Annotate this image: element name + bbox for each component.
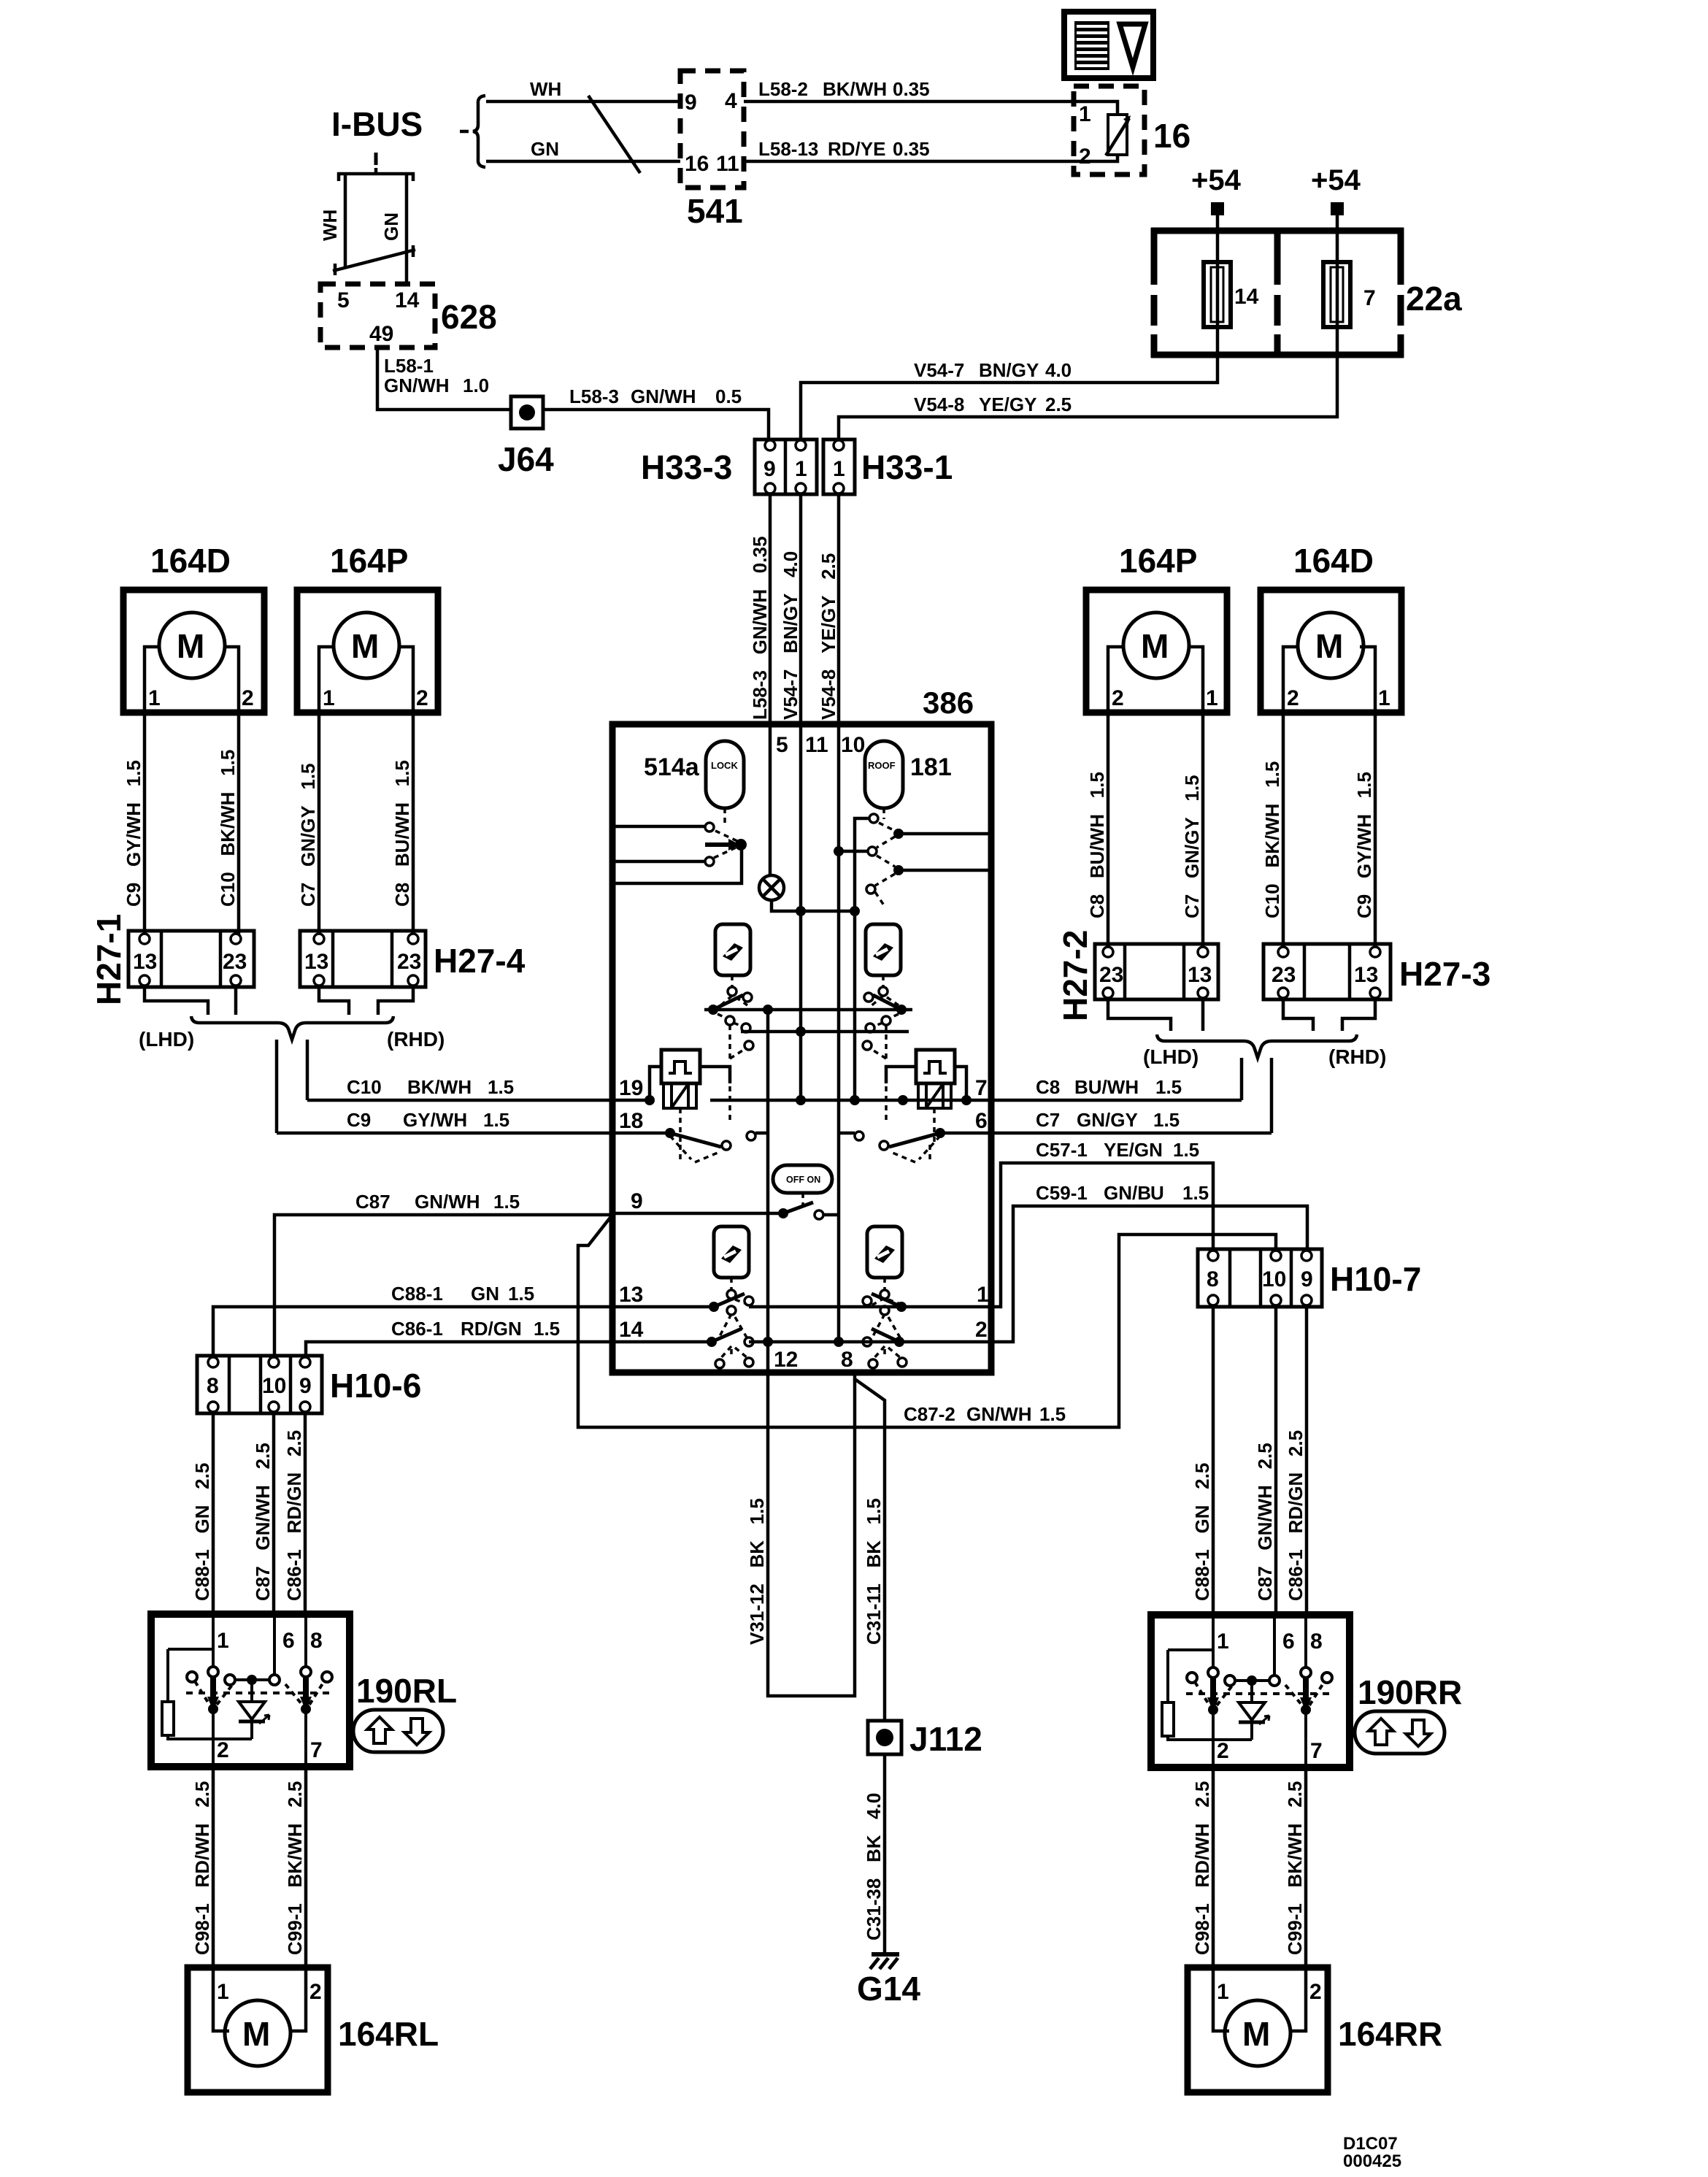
svg-text:2: 2 bbox=[309, 1980, 322, 2004]
svg-text:C8: C8 bbox=[1036, 1076, 1060, 1098]
cluster lower left dashed bbox=[718, 1278, 747, 1339]
svg-text:2: 2 bbox=[242, 686, 254, 710]
stub H27-1 pin13 bbox=[145, 987, 208, 1015]
svg-text:1.5: 1.5 bbox=[488, 1076, 514, 1098]
wire 386 pin 8 to J112 bbox=[855, 1372, 885, 1721]
svg-text:L58-3: L58-3 bbox=[569, 385, 619, 407]
svg-text:8: 8 bbox=[207, 1374, 219, 1398]
motor 164RR bbox=[1188, 1967, 1328, 2092]
brace LHD-RHD left bbox=[191, 1016, 393, 1040]
junction dot roof riser bbox=[850, 906, 860, 916]
svg-text:23: 23 bbox=[1272, 963, 1296, 987]
svg-text:C98-1 RD/WH 2.5: C98-1 RD/WH 2.5 bbox=[191, 1781, 213, 1955]
wire pin 14 row bbox=[615, 1340, 712, 1344]
dashed triangles row6 bbox=[889, 1136, 940, 1162]
junction dot roof lower bbox=[893, 865, 904, 875]
wire WH to 541 pin 9 bbox=[486, 100, 680, 104]
wire pin 19 stub bbox=[615, 1099, 650, 1102]
svg-text:BU/WH: BU/WH bbox=[1074, 1076, 1139, 1098]
svg-text:6: 6 bbox=[975, 1109, 988, 1133]
svg-text:164D: 164D bbox=[1293, 542, 1374, 580]
svg-text:C10: C10 bbox=[347, 1076, 382, 1098]
motor 164P left bbox=[297, 590, 438, 713]
wire roof out upper bbox=[902, 832, 988, 836]
svg-text:164D: 164D bbox=[150, 542, 231, 580]
wire C87 GN/WH 1.5 386 pin 9 to H10-6 pin 10 bbox=[274, 1215, 615, 1356]
svg-text:23: 23 bbox=[223, 950, 247, 974]
stub H27-3 pin23 bbox=[1283, 999, 1313, 1031]
connector H10-6 bbox=[197, 1356, 322, 1413]
svg-text:C87-2: C87-2 bbox=[904, 1403, 955, 1425]
wire C99-1 BK/WH 2.5 190RR to 164RR bbox=[1304, 1767, 1308, 1969]
svg-text:C86-1 RD/GN 2.5: C86-1 RD/GN 2.5 bbox=[283, 1430, 305, 1601]
wire C88-1 GN 2.5 H10-6 to 190RL pin 1 bbox=[212, 1413, 215, 1616]
cluster lower right bottom contacts bbox=[869, 1358, 907, 1368]
svg-text:10: 10 bbox=[841, 733, 865, 757]
wire lock pole return bbox=[615, 845, 742, 883]
svg-text:V54-8: V54-8 bbox=[914, 393, 964, 415]
svg-text:C87 GN/WH 2.5: C87 GN/WH 2.5 bbox=[252, 1443, 274, 1601]
svg-text:1.0: 1.0 bbox=[463, 375, 489, 396]
bus C pins 19-7 bbox=[710, 1099, 988, 1102]
svg-text:4.0: 4.0 bbox=[1045, 359, 1072, 381]
fuse box 22a outline bbox=[1151, 228, 1404, 358]
svg-text:M: M bbox=[242, 2015, 270, 2053]
wire 386 pin 10 bus bbox=[837, 727, 841, 1342]
junction dot pin9 bbox=[778, 1208, 788, 1218]
fuse 7 bbox=[1323, 262, 1350, 327]
svg-text:H27-2: H27-2 bbox=[1056, 930, 1094, 1021]
wire C7 GN/GY 1.5 motor to H27-2 bbox=[1201, 713, 1205, 951]
wire L58-13 RD/YE 0.35 from 541 pin 11 to 16 bbox=[744, 160, 1076, 164]
wire L58-1 GN/WH 1.0 from 628 pin 49 to J64 bbox=[377, 348, 511, 410]
svg-text:000425: 000425 bbox=[1343, 2151, 1401, 2171]
svg-text:GY/WH: GY/WH bbox=[403, 1109, 467, 1131]
wire C88-1 GN 2.5 H10-7 to 190RR pin 1 bbox=[1212, 1307, 1215, 1616]
contact circles row18 bbox=[722, 1132, 768, 1150]
dashed OFF ON bbox=[801, 1193, 804, 1209]
junction dot busC roof bbox=[850, 1095, 860, 1105]
svg-text:C57-1: C57-1 bbox=[1036, 1139, 1088, 1161]
svg-text:1.5: 1.5 bbox=[483, 1109, 509, 1131]
cluster upper left contacts bbox=[713, 987, 752, 1010]
wire C9 GY/WH 1.5 to 386 pin 18 bbox=[277, 1132, 615, 1135]
dashed triangles row18 bbox=[670, 1136, 721, 1162]
connector 541 dashed box bbox=[680, 71, 744, 188]
motor 164D right bbox=[1261, 590, 1401, 713]
motor 164P right bbox=[1086, 590, 1227, 713]
svg-text:V54-7 BN/GY 4.0: V54-7 BN/GY 4.0 bbox=[780, 551, 801, 720]
svg-text:1.5: 1.5 bbox=[1182, 1182, 1209, 1204]
cluster lower left lower dashed bbox=[720, 1346, 747, 1359]
svg-text:C10 BK/WH 1.5: C10 BK/WH 1.5 bbox=[217, 750, 239, 907]
junction dot roof upper bbox=[893, 829, 904, 839]
svg-text:GN/WH: GN/WH bbox=[631, 385, 696, 407]
svg-text:11: 11 bbox=[805, 733, 828, 757]
riser to pulse relay left bbox=[650, 1067, 661, 1100]
wire pin 9 row bbox=[615, 1212, 783, 1216]
motor 164RL bbox=[188, 1967, 328, 2092]
svg-text:H10-7: H10-7 bbox=[1330, 1260, 1421, 1298]
svg-text:13: 13 bbox=[619, 1283, 643, 1307]
connector H33-3 bbox=[755, 439, 817, 494]
svg-text:M: M bbox=[351, 627, 379, 665]
wire V54-7 BN/GY 4.0 into 386 pin 11 bbox=[799, 494, 803, 727]
svg-text:10: 10 bbox=[262, 1374, 286, 1398]
svg-text:ROOF: ROOF bbox=[868, 760, 896, 771]
lock button 514a bbox=[706, 741, 744, 808]
svg-text:49: 49 bbox=[369, 322, 393, 346]
motor 164D left bbox=[123, 590, 264, 713]
svg-text:RD/GN: RD/GN bbox=[461, 1318, 522, 1340]
svg-text:YE/GY: YE/GY bbox=[979, 393, 1036, 415]
svg-text:0.5: 0.5 bbox=[715, 385, 742, 407]
svg-text:GN/WH: GN/WH bbox=[384, 375, 450, 396]
svg-text:1: 1 bbox=[977, 1283, 989, 1307]
wire C87 GN/WH 2.5 H10-6 to 190RL pin 6 bbox=[272, 1413, 276, 1616]
wire C86-1 RD/GN 1.5 386 pin 14 to H10-6 pin 9 bbox=[306, 1342, 615, 1356]
thermistor inside 16 bbox=[1076, 101, 1131, 161]
svg-text:164RL: 164RL bbox=[338, 2015, 439, 2053]
connector 628 dashed box bbox=[320, 284, 435, 348]
cluster lower left contacts bbox=[707, 1290, 753, 1347]
wire L58-2 BK/WH 0.35 from 541 pin 4 to 16 bbox=[744, 100, 1076, 104]
junction J64 bbox=[511, 396, 543, 429]
junction dot busB bbox=[796, 1026, 806, 1037]
cluster upper left dashed bbox=[719, 975, 747, 1007]
svg-text:1: 1 bbox=[1206, 686, 1218, 710]
svg-text:628: 628 bbox=[441, 298, 497, 336]
svg-text:C98-1 RD/WH 2.5: C98-1 RD/WH 2.5 bbox=[1191, 1781, 1213, 1955]
twisted pair slash bbox=[588, 96, 640, 173]
junction dot busC v11 bbox=[796, 1095, 806, 1105]
roof contact c3 bbox=[866, 885, 875, 894]
svg-text:(LHD): (LHD) bbox=[139, 1028, 194, 1051]
wire GN to 541 pin 16 bbox=[486, 160, 680, 164]
wire 386 pin 11 bus bbox=[799, 727, 803, 1100]
svg-text:C87: C87 bbox=[355, 1191, 391, 1213]
svg-text:11: 11 bbox=[716, 152, 739, 176]
svg-text:BN/GY: BN/GY bbox=[979, 359, 1039, 381]
wire C98-1 RD/WH 2.5 190RL to 164RL bbox=[212, 1767, 215, 1969]
junction dot pin14 v10 bbox=[834, 1337, 844, 1347]
svg-text:514a: 514a bbox=[644, 753, 700, 781]
svg-text:23: 23 bbox=[1099, 963, 1123, 987]
bus A bbox=[704, 1008, 912, 1012]
junction dot busC mid bbox=[898, 1095, 908, 1105]
crossover blade on I-BUS pair bbox=[333, 245, 415, 275]
svg-text:RD/YE: RD/YE bbox=[828, 138, 885, 160]
svg-text:C59-1: C59-1 bbox=[1036, 1182, 1088, 1204]
wire C9 GY/WH 1.5 motor to H27-3 bbox=[1374, 713, 1377, 951]
OFF ON switch bbox=[773, 1165, 832, 1193]
svg-text:M: M bbox=[177, 627, 204, 665]
svg-text:(RHD): (RHD) bbox=[1328, 1045, 1386, 1068]
svg-text:13: 13 bbox=[304, 950, 328, 974]
svg-text:2: 2 bbox=[1309, 1980, 1322, 2004]
wire C31-38 BK 4.0 J112 to ground bbox=[883, 1754, 887, 1954]
wire V54-8 YE/GY 2.5 into 386 pin 10 bbox=[837, 494, 841, 727]
wire lamp to node bbox=[772, 900, 855, 911]
contact circle A bbox=[705, 823, 714, 832]
sunroof switch icon bbox=[1064, 12, 1153, 78]
indicator lamp bbox=[759, 875, 784, 900]
svg-text:M: M bbox=[1141, 627, 1169, 665]
svg-text:164RR: 164RR bbox=[1338, 2015, 1442, 2053]
svg-text:V54-7: V54-7 bbox=[914, 359, 964, 381]
svg-text:YE/GN: YE/GN bbox=[1104, 1139, 1163, 1161]
svg-text:C87 GN/WH 2.5: C87 GN/WH 2.5 bbox=[1254, 1443, 1276, 1601]
svg-text:GN: GN bbox=[380, 212, 402, 241]
svg-text:13: 13 bbox=[1188, 963, 1212, 987]
svg-text:16: 16 bbox=[685, 152, 709, 176]
dashed solenoid right bbox=[886, 1086, 934, 1142]
cluster lower right lower dashed bbox=[873, 1346, 901, 1359]
svg-text:1: 1 bbox=[795, 457, 807, 481]
svg-text:H27-3: H27-3 bbox=[1399, 955, 1490, 993]
svg-text:5: 5 bbox=[337, 288, 350, 312]
pulse relay left output bbox=[700, 1067, 730, 1083]
svg-text:GN/GY: GN/GY bbox=[1077, 1109, 1138, 1131]
brace LHD-RHD right bbox=[1157, 1034, 1357, 1058]
blade pin6 bbox=[889, 1133, 940, 1147]
wire C57-1 YE/GN 1.5 386 pin 1 to H10-7 pin 8 bbox=[988, 1163, 1213, 1307]
svg-text:D1C07: D1C07 bbox=[1343, 2134, 1398, 2154]
wire C8 BU/WH 1.5 motor to H27-4 bbox=[412, 713, 415, 938]
connector H27-1 bbox=[128, 931, 254, 987]
junction dot v11 bbox=[796, 906, 806, 916]
svg-text:190RR: 190RR bbox=[1358, 1673, 1462, 1711]
wire C7 GN/GY 1.5 386 pin 6 to brace bbox=[988, 1132, 1272, 1135]
svg-text:0.35: 0.35 bbox=[893, 78, 930, 100]
stub H27-2 pin13 bbox=[1201, 999, 1205, 1031]
svg-text:(RHD): (RHD) bbox=[387, 1028, 445, 1051]
svg-text:1: 1 bbox=[148, 686, 161, 710]
svg-text:G14: G14 bbox=[857, 1970, 920, 2008]
svg-text:C7 GN/GY 1.5: C7 GN/GY 1.5 bbox=[297, 763, 319, 907]
wire pin 6 row bbox=[940, 1132, 988, 1135]
wire C87 GN/WH 2.5 H10-7 to 190RR pin 6 bbox=[1274, 1307, 1278, 1616]
junction dot pin18 bbox=[665, 1128, 675, 1138]
wire C8 BU/WH 1.5 motor to H27-2 bbox=[1107, 713, 1110, 951]
roof cluster riser bbox=[855, 818, 869, 1100]
svg-text:19: 19 bbox=[619, 1076, 643, 1100]
stub H27-4 pin23 bbox=[378, 987, 413, 1015]
wire brace to C8 row bbox=[1240, 1058, 1244, 1100]
svg-text:L58-1: L58-1 bbox=[384, 355, 434, 377]
svg-text:1.5: 1.5 bbox=[1039, 1403, 1066, 1425]
blade pin9 bbox=[783, 1202, 813, 1213]
terminal square +54 right bbox=[1331, 202, 1344, 215]
solenoid left bbox=[663, 1083, 696, 1108]
wire pin 14 bus inner bbox=[749, 1340, 988, 1344]
dashed solenoid left bbox=[680, 1086, 730, 1142]
lock switch arrow pole bbox=[705, 839, 747, 851]
wire brace to C9 row bbox=[275, 1040, 279, 1133]
svg-text:WH: WH bbox=[530, 78, 561, 100]
svg-text:14: 14 bbox=[1234, 285, 1259, 309]
svg-text:GN: GN bbox=[471, 1283, 499, 1305]
svg-text:164P: 164P bbox=[330, 542, 408, 580]
pulse relay left bbox=[661, 1050, 700, 1083]
svg-text:C8 BU/WH 1.5: C8 BU/WH 1.5 bbox=[391, 760, 413, 907]
svg-text:L58-13: L58-13 bbox=[758, 138, 818, 160]
wire pin9 to v10 bbox=[823, 1213, 839, 1217]
junction dot busA v12 bbox=[763, 1005, 773, 1015]
svg-text:U: U bbox=[1150, 1182, 1164, 1204]
svg-text:V31-12 BK 1.5: V31-12 BK 1.5 bbox=[746, 1498, 768, 1645]
wire C59-1 GN/BU 1.5 386 pin 2 to H10-7 pin 9 bbox=[988, 1206, 1307, 1342]
svg-text:4: 4 bbox=[725, 89, 737, 113]
wire L58-3 GN/WH 0.35 into 386 pin 5 bbox=[769, 494, 772, 727]
svg-text:C99-1 BK/WH 2.5: C99-1 BK/WH 2.5 bbox=[1284, 1781, 1306, 1955]
svg-text:C9: C9 bbox=[347, 1109, 371, 1131]
roof contact c1 bbox=[869, 814, 878, 823]
wire +54 to fuse 14 bbox=[1216, 215, 1220, 262]
svg-text:18: 18 bbox=[619, 1109, 643, 1133]
svg-text:22a: 22a bbox=[1406, 280, 1462, 318]
svg-text:9: 9 bbox=[685, 91, 697, 115]
svg-text:16: 16 bbox=[1153, 117, 1190, 155]
wire C88-1 GN 1.5 386 pin 13 to H10-6 pin 8 bbox=[213, 1307, 615, 1356]
svg-text:GN: GN bbox=[531, 138, 559, 160]
I-BUS stub dash bbox=[374, 153, 378, 165]
svg-text:C10 BK/WH 1.5: C10 BK/WH 1.5 bbox=[1261, 761, 1283, 918]
svg-text:8: 8 bbox=[841, 1348, 853, 1372]
svg-text:9: 9 bbox=[299, 1374, 312, 1398]
svg-text:1.5: 1.5 bbox=[1155, 1076, 1182, 1098]
svg-text:1: 1 bbox=[217, 1980, 229, 2004]
svg-text:C8 BU/WH 1.5: C8 BU/WH 1.5 bbox=[1086, 772, 1108, 918]
svg-text:386: 386 bbox=[923, 686, 974, 720]
ground G14 bbox=[870, 1954, 899, 1969]
svg-text:C88-1: C88-1 bbox=[391, 1283, 443, 1305]
svg-text:10: 10 bbox=[1262, 1267, 1286, 1291]
wire WH to 628 bbox=[344, 174, 347, 268]
wire C86-1 RD/GN 2.5 H10-6 to 190RL pin 8 bbox=[304, 1413, 307, 1616]
window icon upper left bbox=[715, 924, 750, 975]
riser to pulse relay right bbox=[955, 1067, 966, 1100]
pulse relay right bbox=[916, 1050, 955, 1083]
wire +54 to fuse 7 bbox=[1336, 215, 1339, 262]
svg-text:7: 7 bbox=[1363, 286, 1376, 310]
svg-text:12: 12 bbox=[774, 1348, 798, 1372]
svg-text:14: 14 bbox=[619, 1318, 644, 1342]
window lifter switch 190RR bbox=[1151, 1615, 1350, 1767]
window icon upper right bbox=[866, 924, 901, 975]
cluster lower right contacts bbox=[863, 1290, 907, 1347]
svg-text:2: 2 bbox=[1287, 686, 1299, 710]
junction dot busA right bbox=[896, 1005, 907, 1015]
cluster lower left bottom contacts bbox=[715, 1358, 753, 1368]
svg-text:C99-1 BK/WH 2.5: C99-1 BK/WH 2.5 bbox=[284, 1781, 306, 1955]
junction dot pin6 bbox=[935, 1128, 945, 1138]
wire 386 pin 5 to lamp bbox=[769, 727, 772, 875]
brace for I-BUS pair at 541 bbox=[460, 96, 485, 167]
junction dot busC right bbox=[961, 1095, 972, 1105]
svg-text:2: 2 bbox=[975, 1318, 988, 1342]
fuse 14 bbox=[1204, 262, 1231, 327]
svg-text:+54: +54 bbox=[1311, 164, 1361, 196]
svg-text:1: 1 bbox=[833, 457, 845, 481]
wire C10 BK/WH 1.5 motor to H27-3 bbox=[1282, 713, 1285, 951]
svg-text:1.5: 1.5 bbox=[508, 1283, 534, 1305]
wire pin 13 bus inner bbox=[749, 1305, 988, 1309]
wire GN to 628 bbox=[405, 174, 409, 284]
svg-text:181: 181 bbox=[910, 753, 952, 781]
wire C87-2 GN/WH 1.5 bbox=[578, 1215, 1276, 1427]
cluster upper right contacts bbox=[864, 987, 901, 1010]
cluster mid right bbox=[863, 1014, 899, 1059]
control unit 386 box bbox=[612, 724, 991, 1372]
component 16 dashed box bbox=[1074, 86, 1145, 174]
wire lock input A bbox=[615, 825, 704, 829]
wire C86-1 RD/GN 2.5 H10-7 to 190RR pin 8 bbox=[1305, 1307, 1309, 1616]
wire C10 BK/WH 1.5 motor to H27-1 bbox=[237, 713, 241, 938]
stub H27-2 pin23 bbox=[1108, 999, 1171, 1031]
svg-text:2.5: 2.5 bbox=[1045, 393, 1072, 415]
svg-text:1.5: 1.5 bbox=[1173, 1139, 1199, 1161]
svg-text:2: 2 bbox=[416, 686, 428, 710]
wire V31-12 BK 1.5 from 386 pin 12 bbox=[768, 1372, 855, 1696]
cluster lower right dashed bbox=[872, 1278, 900, 1339]
wire pin 13 row bbox=[615, 1305, 714, 1309]
wire C7 GN/GY 1.5 motor to H27-4 bbox=[318, 713, 321, 938]
junction J112 bbox=[868, 1721, 901, 1754]
svg-text:C86-1: C86-1 bbox=[391, 1318, 443, 1340]
svg-text:BK/WH: BK/WH bbox=[407, 1076, 472, 1098]
connector H27-2 bbox=[1095, 944, 1218, 999]
svg-text:L58-3 GN/WH 0.35: L58-3 GN/WH 0.35 bbox=[749, 537, 771, 720]
svg-text:1: 1 bbox=[1378, 686, 1390, 710]
window icon lower right bbox=[867, 1226, 902, 1278]
I-BUS bracket bbox=[339, 168, 413, 181]
svg-text:I-BUS: I-BUS bbox=[331, 105, 423, 143]
svg-text:L58-2: L58-2 bbox=[758, 78, 808, 100]
svg-text:1: 1 bbox=[323, 686, 335, 710]
up-down arrows icon left bbox=[353, 1710, 443, 1752]
connector H27-3 bbox=[1263, 944, 1390, 999]
svg-text:GN/WH: GN/WH bbox=[966, 1403, 1032, 1425]
stub H27-4 pin13 bbox=[319, 987, 349, 1015]
svg-text:164P: 164P bbox=[1119, 542, 1197, 580]
svg-text:GN/B: GN/B bbox=[1104, 1182, 1151, 1204]
pulse relay right output bbox=[886, 1067, 916, 1083]
wire brace to C7 row bbox=[1270, 1058, 1274, 1133]
wire roof out lower bbox=[902, 869, 988, 872]
blade pin18 bbox=[670, 1133, 721, 1147]
junction dot pin19 bbox=[645, 1095, 655, 1105]
svg-text:H10-6: H10-6 bbox=[330, 1367, 421, 1405]
svg-text:9: 9 bbox=[1301, 1267, 1313, 1291]
svg-text:(LHD): (LHD) bbox=[1143, 1045, 1199, 1068]
svg-text:C88-1 GN 2.5: C88-1 GN 2.5 bbox=[1191, 1463, 1213, 1601]
svg-text:13: 13 bbox=[133, 950, 157, 974]
svg-text:1: 1 bbox=[1079, 102, 1091, 126]
svg-text:WH: WH bbox=[319, 210, 341, 241]
svg-text:H33-3: H33-3 bbox=[641, 448, 732, 486]
svg-text:7: 7 bbox=[975, 1076, 988, 1100]
wire 386 pin 12 internal bbox=[766, 1010, 770, 1372]
bus B bbox=[741, 1030, 909, 1034]
wire C9 GY/WH 1.5 motor to H27-1 bbox=[143, 713, 147, 938]
svg-text:23: 23 bbox=[397, 950, 421, 974]
svg-text:+54: +54 bbox=[1191, 164, 1242, 196]
wire C10 BK/WH 1.5 to 386 pin 19 bbox=[307, 1099, 615, 1102]
svg-text:2: 2 bbox=[1112, 686, 1124, 710]
wire V54-7 BN/GY 4.0 from fuse 14 to H33-3 pin 1 bbox=[801, 327, 1217, 439]
svg-text:C9 GY/WH 1.5: C9 GY/WH 1.5 bbox=[123, 760, 145, 907]
